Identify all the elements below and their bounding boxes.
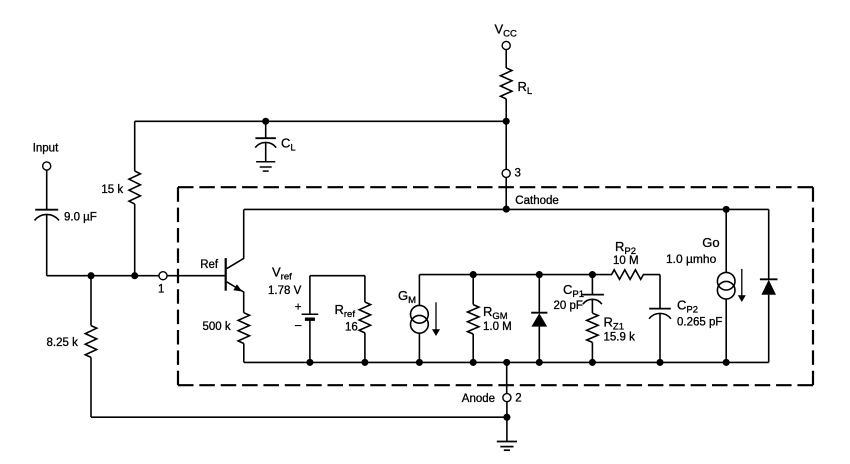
svg-text:16: 16 [345,322,358,334]
svg-text:9.0 µF: 9.0 µF [64,212,97,224]
svg-text:1: 1 [158,284,164,296]
svg-text:+: + [295,302,302,314]
svg-text:Cathode: Cathode [515,195,558,207]
svg-text:500 k: 500 k [203,321,231,333]
svg-text:0.265 pF: 0.265 pF [677,316,722,328]
svg-text:3: 3 [515,167,521,179]
svg-text:15 k: 15 k [101,184,123,196]
svg-text:1.0 M: 1.0 M [483,321,512,333]
svg-text:1.0 µmho: 1.0 µmho [666,252,717,266]
svg-text:2: 2 [515,393,521,405]
svg-text:Ref: Ref [200,259,219,271]
svg-text:Anode: Anode [462,393,495,405]
svg-text:20 pF: 20 pF [554,300,583,312]
svg-text:1.78 V: 1.78 V [268,285,302,297]
svg-text:8.25 k: 8.25 k [47,337,79,349]
svg-text:10 M: 10 M [613,255,639,267]
svg-text:15.9 k: 15.9 k [604,332,636,344]
svg-text:Input: Input [33,142,59,154]
svg-text:Go: Go [702,235,719,250]
svg-text:–: – [295,320,302,332]
